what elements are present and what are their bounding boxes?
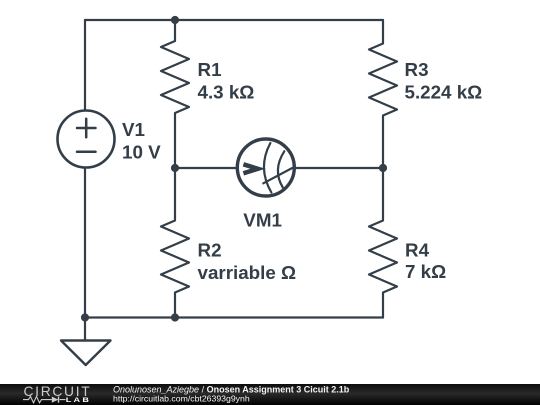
schematic stroke colour xyxy=(58,20,398,365)
VM1 needle xyxy=(263,168,292,183)
V1 plus sign xyxy=(77,119,96,138)
node: bottom middle junction xyxy=(171,313,179,321)
svg-text:http://circuitlab.com/cbt26393: http://circuitlab.com/cbt26393g9ynh xyxy=(113,394,250,404)
wire: bottom horizontal xyxy=(85,316,383,318)
resistor R3 xyxy=(369,20,397,168)
VM1 scale arc right xyxy=(278,151,284,187)
svg-text:VM1: VM1 xyxy=(243,210,282,231)
ground xyxy=(61,341,111,366)
wire: left rail upper xyxy=(84,20,86,110)
svg-text:R1: R1 xyxy=(198,59,222,80)
svg-text:7 kΩ: 7 kΩ xyxy=(405,261,446,282)
wire: top horizontal xyxy=(85,19,383,21)
voltmeter VM1 body xyxy=(237,139,294,196)
svg-text:10 V: 10 V xyxy=(122,141,161,162)
wire: middle right (VM1 to node) xyxy=(296,167,383,169)
node: middle right junction xyxy=(379,164,387,172)
footer bar xyxy=(0,384,540,405)
svg-text:R2: R2 xyxy=(198,239,222,260)
VM1 polarity chevron xyxy=(243,164,258,173)
svg-text:LAB: LAB xyxy=(66,397,91,404)
V1 minus sign xyxy=(77,151,96,154)
svg-text:5.224 kΩ: 5.224 kΩ xyxy=(405,82,483,103)
resistor R1 xyxy=(161,20,189,168)
svg-text:R4: R4 xyxy=(405,239,430,260)
ground stem wire xyxy=(84,318,86,341)
svg-text:4.3 kΩ: 4.3 kΩ xyxy=(198,82,255,103)
CircuitLab logo resistor-diode squiggle xyxy=(23,397,66,403)
svg-text:V1: V1 xyxy=(122,119,145,140)
svg-text:varriable Ω: varriable Ω xyxy=(198,262,297,283)
node: bottom left junction xyxy=(81,313,89,321)
resistor R2 xyxy=(161,168,189,318)
svg-text:R3: R3 xyxy=(405,59,429,80)
node: middle left junction xyxy=(171,164,179,172)
resistor R4 xyxy=(369,168,397,318)
VM1 scale arc left xyxy=(264,143,271,193)
node: top middle junction xyxy=(171,16,179,24)
wire: left rail lower xyxy=(84,168,86,318)
voltage source V1 xyxy=(58,111,115,168)
wire: middle left (node to VM1) xyxy=(175,167,236,169)
